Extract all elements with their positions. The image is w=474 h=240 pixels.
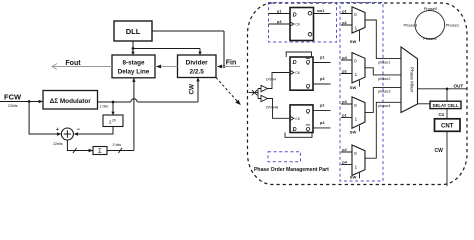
svg-text:SW: SW <box>350 85 357 90</box>
svg-text:22bits: 22bits <box>53 142 63 146</box>
buffer B1 <box>258 73 290 99</box>
wire feedback to summer minus <box>74 127 113 136</box>
svg-text:SW: SW <box>350 39 357 44</box>
svg-text:Phase0: Phase0 <box>424 6 438 11</box>
svg-text:DIVN4: DIVN4 <box>266 77 276 81</box>
svg-text:DIVN4B: DIVN4B <box>266 106 279 110</box>
svg-text:phase3: phase3 <box>378 90 390 94</box>
svg-text:20: 20 <box>112 119 116 123</box>
blue legend box <box>268 152 301 162</box>
svg-text:p3: p3 <box>277 20 281 24</box>
svg-text:−: − <box>77 127 81 133</box>
node FCW input <box>0 93 43 108</box>
phase mixer U5 <box>401 47 418 113</box>
svg-text:D: D <box>293 60 297 66</box>
node C4 <box>439 109 448 119</box>
node Fin <box>216 60 240 69</box>
counter CNT <box>435 119 461 132</box>
svg-text:p1: p1 <box>342 10 346 14</box>
svg-text:Phase3: Phase3 <box>404 22 418 27</box>
svg-text:p2: p2 <box>320 103 324 107</box>
svg-text:CW: CW <box>435 148 444 154</box>
wire mixer to delay cell <box>418 103 431 105</box>
svg-text:1: 1 <box>355 117 358 123</box>
svg-text:22bits: 22bits <box>8 104 18 108</box>
node OUT <box>418 83 468 90</box>
dashed detail panel border <box>248 3 468 185</box>
svg-text:p1: p1 <box>342 114 346 118</box>
svg-text:1: 1 <box>355 72 358 78</box>
svg-text:0: 0 <box>354 12 357 18</box>
dashed callout arrow from divider to detail <box>216 78 241 106</box>
svg-text:C4: C4 <box>439 112 445 117</box>
flip-flop FF1 <box>269 8 331 41</box>
svg-text:0: 0 <box>354 103 357 109</box>
8-stage Delay Line block U2 <box>112 55 155 78</box>
svg-text:p1: p1 <box>277 10 281 14</box>
svg-text:CK: CK <box>295 117 301 121</box>
svg-text:1: 1 <box>355 26 358 32</box>
node clock tap X <box>249 90 259 95</box>
mux M3 <box>341 88 401 135</box>
svg-text:Q: Q <box>306 127 311 133</box>
title Phase Order Management Part <box>254 167 329 173</box>
delta-sigma modulator block U4 <box>43 91 98 110</box>
svg-text:OUT: OUT <box>454 83 464 88</box>
wire summer to accumulator <box>67 140 93 153</box>
svg-text:0: 0 <box>354 59 357 65</box>
svg-text:SW: SW <box>350 130 357 135</box>
accumulator sigma block <box>93 147 107 156</box>
svg-text:phase2: phase2 <box>378 77 390 81</box>
svg-text:CK: CK <box>295 71 301 75</box>
svg-text:DLL: DLL <box>126 27 141 36</box>
svg-text:2 bits: 2 bits <box>113 143 122 147</box>
svg-text:p2: p2 <box>342 70 346 74</box>
DLL block U1 <box>114 21 152 41</box>
svg-text:Fout: Fout <box>65 60 81 67</box>
label CW to divider <box>189 84 196 95</box>
svg-text:Q: Q <box>306 84 311 90</box>
svg-text:1: 1 <box>355 165 358 171</box>
flip-flop FF3 <box>285 103 331 137</box>
svg-text:SW: SW <box>350 175 357 180</box>
wire DLL bottom to delay line and divider tops <box>131 41 201 55</box>
svg-text:CK: CK <box>295 23 301 27</box>
label 22bits feedback <box>53 142 63 146</box>
svg-text:p2: p2 <box>342 148 346 152</box>
svg-text:p3: p3 <box>342 100 346 104</box>
svg-text:phase1: phase1 <box>378 61 390 65</box>
svg-text:Divider: Divider <box>186 60 209 67</box>
delay cell U6 <box>430 89 461 109</box>
summer S1 <box>61 127 80 140</box>
node Fout <box>52 60 112 70</box>
phase wheel diagram <box>404 6 460 41</box>
svg-text:CNT: CNT <box>441 124 454 130</box>
svg-text:Phase1: Phase1 <box>446 22 460 27</box>
svg-text:p2: p2 <box>342 21 346 25</box>
svg-text:sw1: sw1 <box>317 9 324 13</box>
svg-text:DELAY CELL: DELAY CELL <box>433 103 459 108</box>
mux M2 <box>341 53 401 90</box>
svg-text:Phase2: Phase2 <box>423 36 437 41</box>
svg-text:0: 0 <box>354 151 357 157</box>
svg-text:Q: Q <box>306 109 311 115</box>
buffer B2 <box>261 95 290 118</box>
blue box around flip-flop FF1 <box>269 3 337 43</box>
flip-flop FF2 <box>286 52 330 90</box>
svg-text:p3: p3 <box>320 77 324 81</box>
svg-text:D: D <box>293 13 297 19</box>
node CW output <box>435 131 448 186</box>
svg-text:Phase Mixer: Phase Mixer <box>410 67 415 93</box>
svg-text:ΔΣ Modulator: ΔΣ Modulator <box>50 98 92 105</box>
svg-text:Fin: Fin <box>226 60 237 67</box>
mux M4 <box>341 102 401 179</box>
svg-text:2/2.5: 2/2.5 <box>189 69 204 76</box>
svg-text:FCW: FCW <box>4 93 22 102</box>
svg-text:Q: Q <box>306 60 311 66</box>
mux M1 <box>341 7 401 65</box>
blue box around mux column <box>340 3 383 182</box>
svg-text:Delay Line: Delay Line <box>118 69 150 76</box>
gain 2^20 block <box>103 102 123 127</box>
wire FCW down to summer <box>29 102 61 136</box>
svg-text:Phase Order Management Part: Phase Order Management Part <box>254 167 329 173</box>
wire 2 bits to delay line <box>107 78 136 153</box>
svg-text:phase4: phase4 <box>378 104 390 108</box>
svg-text:1 bits: 1 bits <box>100 104 109 108</box>
svg-text:p1: p1 <box>320 55 324 59</box>
Divider 2/2.5 block U3 <box>178 55 217 78</box>
svg-text:D: D <box>293 127 297 133</box>
svg-text:CW: CW <box>189 84 196 95</box>
wire DLL right to Fin node <box>152 31 225 68</box>
svg-text:8-stage: 8-stage <box>122 60 145 67</box>
svg-text:Σ: Σ <box>98 149 102 155</box>
wire modulator output 1 bit <box>98 77 200 108</box>
svg-text:+: + <box>56 127 59 133</box>
wire divider output to delay line input <box>155 65 178 69</box>
